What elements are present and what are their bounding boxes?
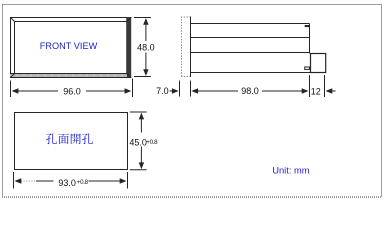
front view bezel inner rect (left+top)	[14, 22, 127, 74]
dim 7.0 arrow	[170, 90, 173, 92]
dim 93.0 extension lines	[14, 172, 128, 189]
dim 96.0 line	[18, 90, 125, 92]
front view bezel bottom band edge lines	[10, 74, 131, 78]
dim 45.0 line	[140, 120, 142, 164]
dim 96.0 extension lines	[11, 79, 133, 98]
svg-text:48.0: 48.0	[137, 43, 155, 53]
page border	[3, 5, 382, 198]
mounting clip top	[305, 25, 310, 27]
dim 48.0 extension ticks	[134, 18, 151, 77]
svg-text:45.0: 45.0	[129, 138, 147, 148]
dim 45.0 extension ticks	[130, 112, 147, 170]
svg-text:96.0: 96.0	[63, 86, 81, 96]
front view bezel right shaded band	[126, 17, 131, 78]
dim 98.0 line	[198, 90, 303, 92]
dim 96.0 arrowheads	[12, 88, 132, 93]
front view bezel white dots on bottom band	[16, 75, 122, 76]
svg-text:+0.8: +0.8	[77, 179, 89, 186]
svg-text:+0.8: +0.8	[146, 139, 158, 146]
label 孔面開孔 (blue CJK)	[46, 133, 93, 144]
dim 7.0/98.0 extension lines	[180, 81, 191, 97]
dim 48.0 line	[145, 24, 147, 71]
dim 93.0 line	[36, 180, 121, 182]
side view bezel dotted edges	[181, 17, 190, 77]
dim 12 extension lines	[310, 75, 325, 97]
svg-text:Unit: mm: Unit: mm	[272, 165, 309, 175]
svg-text:7.0: 7.0	[156, 86, 169, 96]
front view bezel bottom gray band	[10, 74, 127, 77]
svg-text:93.0: 93.0	[58, 178, 76, 188]
dim 93.0 arrowheads	[15, 178, 127, 183]
dim 48.0 arrowheads	[143, 18, 148, 76]
svg-text:FRONT VIEW: FRONT VIEW	[40, 41, 98, 51]
svg-text:12: 12	[311, 86, 321, 96]
dim 12 right arrow	[332, 90, 336, 92]
mounting clip bottom	[305, 67, 310, 69]
panel cutout rectangle	[15, 113, 128, 170]
side view bezel right solid edge	[190, 17, 192, 78]
svg-text:98.0: 98.0	[241, 86, 259, 96]
side view body lines	[191, 24, 327, 73]
dim 45.0 arrowheads	[139, 113, 144, 170]
front view bezel corner diagonals	[11, 18, 132, 78]
front view bezel outer rect (left+top)	[10, 18, 131, 79]
terminal block	[311, 54, 326, 73]
dim 98.0 arrowheads	[191, 88, 308, 93]
